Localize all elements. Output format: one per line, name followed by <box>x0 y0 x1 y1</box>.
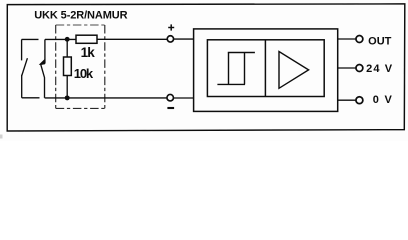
wire: bottom rail from - terminal to amplifier box <box>174 97 194 99</box>
node: bottom junction dot <box>65 95 70 100</box>
box left edge <box>55 25 57 108</box>
wire: bottom rail from contact to - terminal <box>45 97 167 99</box>
wire: top rail from + terminal to amplifier box <box>174 38 194 40</box>
amplifier inner box <box>207 40 324 97</box>
svg-text:UKK 5-2R/NAMUR: UKK 5-2R/NAMUR <box>34 9 127 21</box>
terminal circle - <box>167 94 174 101</box>
terminal circle 0V <box>356 97 363 104</box>
contact S1 lower lead <box>21 75 23 98</box>
plus sign <box>168 24 174 30</box>
svg-text:0 V: 0 V <box>373 94 393 106</box>
scan speck bottom left <box>0 135 3 139</box>
svg-text:24 V: 24 V <box>366 63 393 75</box>
amplifier outer box <box>194 29 338 112</box>
box right edge <box>104 25 106 108</box>
contact S2 blade with lower lead <box>41 64 45 98</box>
contact S2 actuation arrowhead <box>39 59 45 65</box>
terminal circle + <box>167 36 173 42</box>
terminal circle OUT <box>356 36 363 43</box>
wire: bottom rail stub of contact S1 <box>22 97 40 99</box>
schmitt trigger hysteresis symbol <box>217 53 255 85</box>
contact S1 upper post <box>21 39 23 60</box>
terminal circle 24V <box>356 65 363 72</box>
dashed equivalent-circuit box (dash-dot) <box>56 25 105 108</box>
inner box divider <box>264 40 266 97</box>
wire: top rail stub of contact S1 <box>22 38 39 40</box>
wire: junction to 10k resistor <box>66 39 68 57</box>
wire: top rail from 1k resistor to + terminal <box>97 38 167 40</box>
border frame <box>7 4 405 131</box>
contact S1 blade <box>22 58 28 75</box>
node: top junction dot <box>65 37 70 42</box>
amplifier triangle <box>279 52 309 89</box>
resistor 1k body <box>76 35 97 43</box>
box bottom edge <box>56 107 105 109</box>
wire: top rail from contact to 1k resistor <box>45 38 76 40</box>
wire: box to OUT terminal <box>338 38 356 40</box>
svg-text:10k: 10k <box>74 66 94 81</box>
contact S2 upper post <box>44 39 46 63</box>
svg-text:1k: 1k <box>81 45 96 60</box>
minus sign <box>167 107 174 109</box>
box top edge (faded) <box>56 24 105 26</box>
svg-text:OUT: OUT <box>368 36 392 48</box>
wire: 10k resistor to bottom junction <box>66 76 68 98</box>
wire: box to 0V terminal <box>338 99 356 101</box>
resistor 10k body <box>64 57 72 76</box>
wire: box to 24V terminal <box>338 67 356 69</box>
